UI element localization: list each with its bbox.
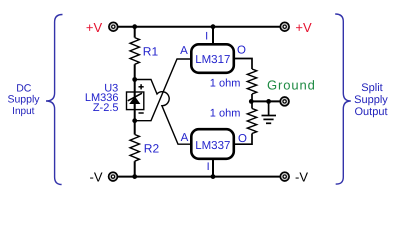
svg-text:LM337: LM337 — [195, 140, 230, 152]
svg-text:Input: Input — [12, 106, 34, 117]
svg-text:LM317: LM317 — [195, 54, 230, 66]
svg-text:A: A — [181, 132, 189, 144]
svg-text:-V: -V — [295, 169, 308, 184]
svg-text:1 ohm: 1 ohm — [210, 78, 241, 90]
svg-text:R2: R2 — [144, 141, 160, 155]
svg-text:+V: +V — [295, 20, 312, 35]
svg-text:Output: Output — [354, 106, 387, 118]
svg-text:O: O — [238, 133, 247, 145]
svg-text:I: I — [205, 31, 208, 43]
svg-text:Z-2.5: Z-2.5 — [93, 102, 119, 114]
svg-text:Supply: Supply — [7, 94, 40, 106]
svg-text:A: A — [180, 45, 188, 57]
svg-text:R1: R1 — [143, 44, 159, 58]
svg-text:Split: Split — [361, 82, 382, 94]
svg-text:O: O — [237, 45, 246, 57]
svg-text:Ground: Ground — [267, 78, 316, 93]
svg-text:+V: +V — [86, 20, 103, 35]
svg-text:1 ohm: 1 ohm — [210, 108, 241, 120]
svg-text:I: I — [207, 161, 210, 173]
svg-text:-V: -V — [90, 169, 103, 184]
svg-text:Supply: Supply — [354, 94, 388, 106]
